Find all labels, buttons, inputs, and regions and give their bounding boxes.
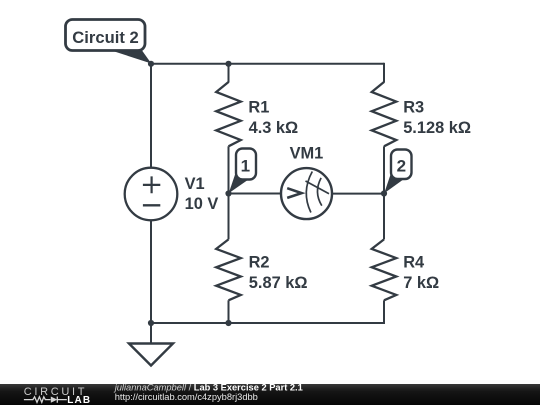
resistor R2 [216, 239, 241, 300]
junction dot bottom rail / R2 [225, 320, 231, 326]
wire mid rail right (VM1 to node 2) [332, 193, 384, 195]
svg-text:5.128 kΩ: 5.128 kΩ [403, 119, 471, 137]
voltmeter VM1 [281, 168, 332, 219]
resistor R4 [372, 239, 397, 300]
wire R1 bottom lead (to node 1) [228, 146, 230, 193]
svg-text:1: 1 [241, 157, 250, 176]
svg-text:V1: V1 [185, 175, 205, 193]
svg-text:10 V: 10 V [185, 195, 219, 213]
annotation callout "Circuit 2" [66, 20, 152, 64]
svg-text:juliannaCampbell / Lab 3 Exerc: juliannaCampbell / Lab 3 Exercise 2 Part… [113, 383, 303, 393]
CircuitLab logo: resistor-diode symbol [24, 397, 67, 403]
wire mid rail left (node 1 to VM1) [229, 193, 282, 195]
svg-text:R3: R3 [403, 99, 424, 117]
svg-text:4.3 kΩ: 4.3 kΩ [249, 119, 299, 137]
wire R2 top lead (node 1 down to R2) [228, 194, 230, 240]
label R4 7 kOhm [403, 253, 439, 292]
label R3 5.128 kOhm [403, 99, 471, 138]
junction dot node 2 [381, 190, 387, 196]
ground [129, 323, 173, 366]
label R2 5.87 kOhm [249, 253, 308, 292]
junction dot bottom-left (ground) [148, 320, 154, 326]
wire R2 bottom lead (to bottom rail junction) [228, 300, 230, 323]
resistor R3 [372, 82, 397, 146]
wire left column bottom (V1 minus terminal to bottom rail) [150, 220, 152, 323]
svg-text:LAB: LAB [67, 395, 91, 405]
svg-text:2: 2 [397, 157, 406, 176]
wire R3 bottom lead (to node 2) [383, 146, 385, 193]
label V1 10 V [185, 175, 219, 213]
svg-text:R1: R1 [248, 99, 269, 117]
resistor R1 [216, 82, 241, 146]
label R1 4.3 kOhm [248, 99, 298, 138]
wire left column top (node to V1 plus terminal) [150, 64, 152, 168]
junction dot top-left [148, 61, 154, 67]
wire R1 top lead (top rail junction down to R1) [228, 64, 230, 83]
junction dot top rail / R1 [225, 61, 231, 67]
node 2 flag [384, 150, 411, 194]
footer bar [0, 384, 540, 405]
wire R4 bottom lead (to bottom rail corner) [383, 300, 385, 324]
svg-text:Circuit 2: Circuit 2 [72, 28, 138, 47]
svg-text:7 kΩ: 7 kΩ [403, 274, 439, 292]
svg-text:5.87 kΩ: 5.87 kΩ [249, 274, 308, 292]
wire top rail [151, 63, 384, 65]
wire R4 top lead (node 2 down to R4) [383, 194, 385, 240]
wire right column top (top rail corner down to R3) [383, 63, 385, 83]
svg-text:R4: R4 [403, 253, 425, 271]
junction dot node 1 [225, 190, 231, 196]
voltage source V1 [125, 168, 178, 221]
node 1 flag [229, 149, 256, 194]
svg-text:http://circuitlab.com/c4zpyb8r: http://circuitlab.com/c4zpyb8rj3dbb [115, 392, 258, 402]
svg-text:R2: R2 [249, 253, 270, 271]
svg-text:VM1: VM1 [290, 145, 324, 163]
wire bottom rail [151, 322, 384, 324]
